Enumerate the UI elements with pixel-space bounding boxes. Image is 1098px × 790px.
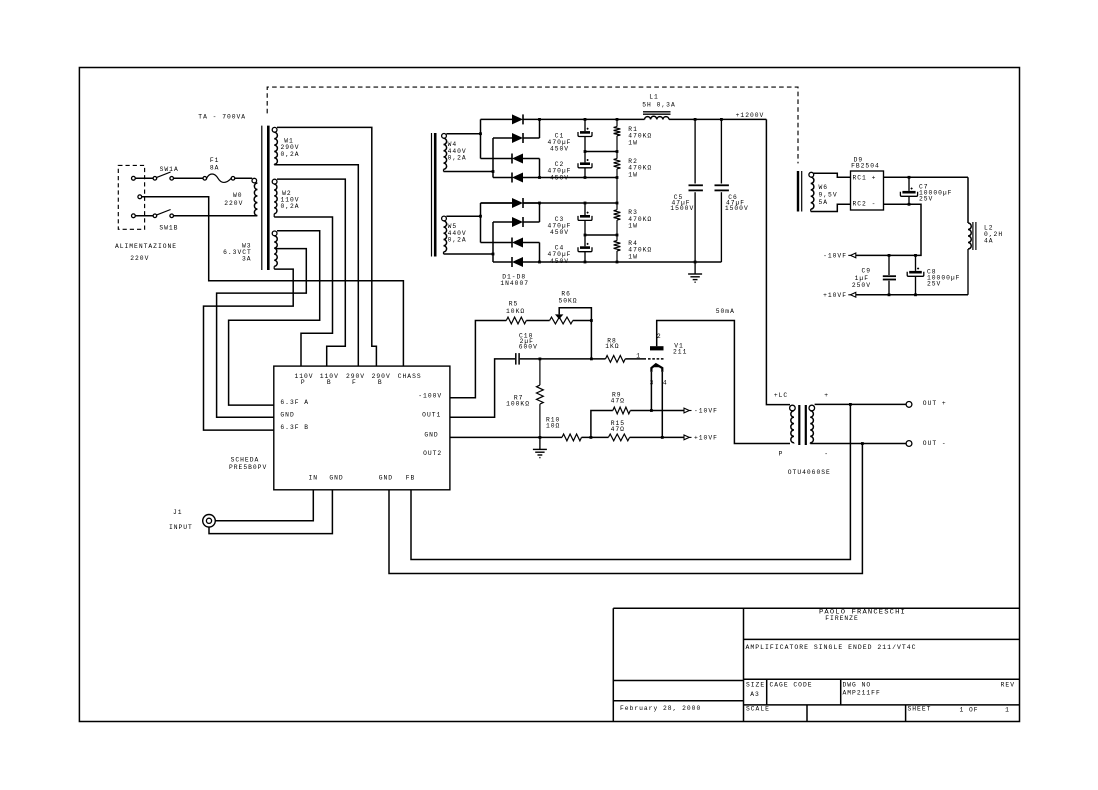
capacitor C10 2uF 600V: [516, 353, 519, 365]
board pin label OUT1: [422, 412, 441, 419]
junction R3 top: [616, 202, 619, 205]
label RC1 +: [853, 174, 877, 181]
board pin label FB: [406, 475, 416, 482]
OPT core: [799, 405, 806, 445]
svg-text:5H 0,3A: 5H 0,3A: [642, 102, 675, 109]
board pin label 6.3F A: [280, 399, 309, 406]
label SW1A: [160, 166, 179, 173]
svg-text:W0: W0: [233, 192, 243, 199]
resistor R2 470K 1W: [614, 152, 621, 178]
board pin label 6.3F B: [280, 424, 309, 431]
label D1-D8 1N4007: [500, 274, 529, 288]
terminal -10VF filament: [823, 253, 856, 260]
svg-text:220V: 220V: [130, 255, 149, 262]
svg-text:OUT2: OUT2: [423, 450, 442, 457]
diode D1: [481, 114, 540, 124]
transformer TA primary W0: [252, 178, 257, 215]
resistor R4 470K 1W: [614, 235, 621, 262]
wire J1 shield to board GND pin: [209, 490, 332, 534]
svg-text:50KΩ: 50KΩ: [558, 298, 577, 305]
label - secondary: [824, 451, 829, 458]
board pin label 110V P: [294, 373, 313, 386]
svg-text:FB2504: FB2504: [851, 162, 880, 169]
junction R7 top: [539, 358, 542, 361]
switch SW1B: [153, 210, 173, 218]
label W0 220V: [224, 192, 243, 207]
svg-text:FIRENZE: FIRENZE: [825, 615, 858, 622]
board pin label CHASS: [398, 373, 422, 380]
svg-text:4: 4: [663, 379, 668, 386]
wire +10VF rail: [856, 294, 969, 296]
wire filament pin 3 leg: [650, 372, 652, 411]
label R7: [506, 395, 530, 408]
svg-text:+: +: [824, 392, 829, 399]
wire GND from board: [450, 436, 562, 438]
diode D4: [493, 173, 523, 183]
svg-text:47Ω: 47Ω: [611, 398, 625, 405]
wire mains N to SW1B: [135, 215, 153, 217]
diode D7: [481, 238, 540, 263]
wire W3 bottom to board pin 6.3F B: [204, 269, 294, 430]
wire group1 bottom node: [523, 177, 617, 179]
svg-text:L1: L1: [649, 94, 659, 101]
label W5 440V 0,2A: [448, 223, 467, 243]
pin label 3: [650, 379, 655, 386]
board pin label 290V F: [346, 373, 365, 386]
svg-text:2: 2: [657, 333, 662, 340]
svg-text:-: -: [824, 451, 829, 458]
svg-text:1500V: 1500V: [670, 205, 694, 212]
junction C4 bottom: [584, 261, 587, 264]
junction pin4 to wire: [661, 436, 664, 439]
wire F1 to W0 primary: [235, 177, 252, 179]
junction bottom1 at diode bus: [538, 176, 541, 179]
label L2: [984, 225, 1003, 245]
label W1 290V 0,2A: [280, 138, 299, 158]
transformer TA secondary W3: [272, 231, 277, 269]
label + secondary: [824, 392, 829, 399]
title text CAGE CODE: [770, 682, 813, 689]
mains terminal node N: [132, 214, 136, 218]
wire RC2 output: [856, 204, 922, 255]
trimmer R6 50K: [550, 308, 592, 324]
title text date: [620, 705, 701, 712]
svg-text:450V: 450V: [550, 146, 569, 153]
tube V1 211 plate: [650, 346, 664, 350]
resistor R7 100K: [537, 359, 544, 437]
junction R4 bottom: [616, 261, 619, 264]
diode D3: [481, 154, 540, 178]
svg-text:8A: 8A: [210, 165, 220, 172]
label C4: [548, 245, 572, 265]
svg-text:1W: 1W: [628, 172, 638, 179]
svg-text:February 28, 2000: February 28, 2000: [620, 705, 701, 712]
title text SCALE: [746, 706, 770, 713]
label R15: [611, 420, 625, 433]
label J1 INPUT: [169, 509, 193, 531]
label P: [779, 451, 784, 458]
terminal OUT-: [906, 440, 947, 447]
svg-text:47Ω: 47Ω: [611, 426, 625, 433]
wire W4 top to diode column: [446, 133, 480, 135]
wire W6 top to bridge: [814, 173, 851, 177]
label R10: [546, 417, 560, 430]
wire +1200V rail: [669, 118, 766, 120]
inductor L1 5H 0,3A: [643, 112, 671, 120]
label F1 8A: [210, 157, 220, 172]
svg-text:25V: 25V: [919, 196, 933, 203]
board pin label -100V: [418, 393, 442, 400]
svg-text:1µF: 1µF: [855, 275, 869, 282]
svg-text:CHASS: CHASS: [398, 373, 422, 380]
svg-text:3: 3: [650, 379, 655, 386]
svg-text:-10VF: -10VF: [694, 408, 718, 415]
title text AMPLIFICATORE SINGLE ENDED 211/VT4C: [746, 644, 917, 651]
wire W1 top to board pin 290V B: [277, 127, 376, 366]
svg-text:A3: A3: [750, 691, 760, 698]
svg-text:3A: 3A: [242, 255, 252, 262]
svg-text:1W: 1W: [628, 223, 638, 230]
tube V1 211 grid: [648, 358, 664, 360]
pin label 4: [663, 379, 668, 386]
junction bottom rail at diode bus: [538, 261, 541, 264]
junction W5 bottom: [492, 253, 495, 256]
diode D5: [481, 198, 540, 208]
transformer core W4/W5: [432, 133, 436, 257]
svg-text:SHEET: SHEET: [908, 706, 932, 713]
terminal -10VF tube: [684, 408, 718, 415]
transformer TA secondary W1: [272, 127, 277, 164]
svg-text:DWG NO: DWG NO: [843, 682, 872, 689]
svg-text:OTU4060SE: OTU4060SE: [788, 469, 831, 476]
capacitor C8 10000uF 25V: [907, 255, 924, 294]
label C8: [927, 269, 960, 288]
resistor R3 470K 1W: [614, 203, 621, 235]
page border frame: [79, 68, 1019, 722]
label C9: [852, 268, 871, 290]
wire W2 top to board pin 110V B: [277, 179, 345, 366]
label R2: [628, 158, 652, 179]
label R4: [628, 240, 652, 261]
label R1: [628, 126, 652, 147]
wire R8 to grid pin 1: [625, 358, 646, 360]
capacitor C3 470uF 450V: [578, 203, 592, 235]
svg-text:9,5V: 9,5V: [819, 192, 838, 199]
wire HV top rail: [540, 118, 645, 120]
svg-text:100KΩ: 100KΩ: [506, 401, 530, 408]
svg-text:ALIMENTAZIONE: ALIMENTAZIONE: [115, 243, 177, 250]
label L1: [642, 94, 675, 109]
junction C6 top: [720, 118, 723, 121]
svg-text:PRE5B0PV: PRE5B0PV: [229, 464, 267, 471]
svg-text:+LC: +LC: [774, 392, 788, 399]
resistor R9 47R: [613, 407, 631, 414]
wire W3 top to board pin 6.3F A: [229, 231, 320, 405]
svg-text:SCALE: SCALE: [746, 706, 770, 713]
label V1 211: [673, 343, 687, 356]
svg-text:F: F: [352, 379, 357, 386]
label D9 FB2504: [851, 157, 880, 170]
board pin label GND bottom fb: [379, 475, 393, 482]
svg-text:OUT1: OUT1: [422, 412, 441, 419]
svg-text:211: 211: [673, 349, 687, 356]
winding W5: [442, 216, 447, 254]
capacitor C5 47uF 1500V: [689, 119, 703, 262]
wire group2 mid node: [585, 234, 617, 236]
input jack J1: [203, 515, 216, 528]
wire diode left column B group1: [492, 138, 494, 178]
svg-text:250V: 250V: [852, 282, 871, 289]
svg-text:450V: 450V: [550, 229, 569, 236]
junction C1 top: [584, 118, 587, 121]
svg-text:25V: 25V: [927, 281, 941, 288]
junction W4 bottom: [492, 170, 495, 173]
title text PAOLO FRANCESCHI: [819, 609, 906, 616]
terminal +10VF filament: [823, 292, 856, 299]
resistor R15 47R: [608, 434, 629, 441]
label R6: [558, 290, 577, 304]
board pin label GND bottom input: [329, 475, 343, 482]
title block outline: [613, 608, 1019, 721]
junction R1 bottom: [616, 150, 619, 153]
svg-text:-10VF: -10VF: [823, 253, 847, 260]
junction top rail at diode bus: [538, 118, 541, 121]
svg-text:INPUT: INPUT: [169, 524, 193, 531]
svg-text:450V: 450V: [550, 174, 569, 181]
svg-text:OUT -: OUT -: [923, 440, 947, 447]
terminal +10VF tube: [684, 435, 718, 442]
svg-text:0,2A: 0,2A: [280, 203, 299, 210]
diode D2: [493, 119, 540, 143]
svg-text:1500V: 1500V: [725, 205, 749, 212]
svg-text:W6: W6: [819, 184, 829, 191]
junction pin3 to R9: [650, 409, 653, 412]
dashed HV supply boundary box: [267, 87, 798, 163]
title text REV: [1001, 682, 1015, 689]
transformer TA secondary W2: [272, 179, 277, 217]
wire W5 bottom to diode column: [444, 253, 494, 255]
wire secondary ground to board GND pin: [389, 444, 862, 574]
svg-text:+1200V: +1200V: [736, 112, 765, 119]
wire R10 to R15: [582, 436, 609, 438]
wire R2-R3 link: [616, 178, 618, 204]
junction ground tap: [861, 442, 864, 445]
board pin label 110V B: [320, 373, 339, 386]
junction C1 bottom: [584, 150, 587, 153]
ground symbol HV: [688, 262, 702, 282]
title text DWG NO: [843, 682, 881, 697]
label OTU4060SE: [788, 469, 831, 476]
board pin label OUT2: [423, 450, 442, 457]
bridge rectifier D9 FB2504: [851, 171, 884, 210]
svg-text:TA - 700VA: TA - 700VA: [198, 114, 246, 121]
svg-text:10KΩ: 10KΩ: [506, 308, 525, 315]
svg-text:6.3F A: 6.3F A: [280, 399, 309, 406]
svg-text:R6: R6: [561, 290, 571, 297]
wire group2 top rail: [481, 202, 618, 204]
wire SW1B to W0 primary: [174, 215, 258, 217]
wire W4 bottom to diode column: [444, 171, 494, 173]
capacitor C2 470uF 450V: [578, 152, 592, 178]
wire W3 center tap to board GND pin: [217, 249, 307, 418]
svg-text:6.3F B: 6.3F B: [280, 424, 309, 431]
board pin label GND left: [280, 412, 294, 419]
inductor L2 0,2H 4A: [968, 177, 976, 294]
resistor R8 1K grid stopper: [606, 356, 626, 363]
svg-text:GND: GND: [379, 475, 393, 482]
wire R6 node down to grid node: [590, 321, 592, 359]
title text SHEET: [908, 706, 1010, 714]
junction chassis ground: [539, 436, 542, 439]
label 50mA: [716, 308, 735, 315]
wire OPT secondary bottom to OUT-: [810, 443, 906, 445]
mains terminal node L: [132, 176, 136, 180]
title text FIRENZE: [825, 615, 858, 622]
label SW1B: [159, 225, 178, 232]
svg-text:1KΩ: 1KΩ: [605, 343, 619, 350]
svg-text:0,2A: 0,2A: [280, 151, 299, 158]
svg-text:450V: 450V: [550, 258, 569, 265]
svg-text:GND: GND: [424, 432, 438, 439]
dashed mains connector box ALIMENTAZIONE: [118, 165, 144, 229]
svg-text:4A: 4A: [984, 237, 994, 244]
label R9: [611, 392, 625, 405]
svg-text:SIZE: SIZE: [746, 682, 765, 689]
wire W5 top to diode column: [446, 215, 480, 217]
junction R2 bottom: [616, 176, 619, 179]
svg-text:1: 1: [1005, 707, 1010, 714]
svg-text:R5: R5: [509, 300, 519, 307]
OPT primary winding: [790, 405, 796, 443]
wire plate to OPT primary: [657, 321, 790, 444]
svg-text:220V: 220V: [224, 200, 243, 207]
junction W5 top: [479, 215, 482, 218]
wire C10 to grid node: [520, 358, 606, 360]
junction W4 top: [479, 132, 482, 135]
wire filament pin 4 leg: [661, 372, 663, 438]
svg-text:GND: GND: [329, 475, 343, 482]
svg-text:IN: IN: [309, 475, 319, 482]
label R3: [628, 209, 652, 230]
junction C5 top: [694, 118, 697, 121]
pin label 2: [657, 333, 662, 340]
junction C7 bottom: [908, 203, 911, 206]
wire RC1 output rail: [884, 176, 969, 178]
svg-text:5A: 5A: [819, 199, 829, 206]
capacitor C6 47uF 1500V: [715, 119, 729, 262]
terminal OUT+: [906, 400, 947, 407]
label C1: [548, 132, 572, 152]
driver board SCHEDA PRE5B0PV outline: [274, 366, 450, 490]
wire W2 bottom to board pin 110V P: [274, 217, 332, 366]
wire -100V from board: [450, 321, 506, 398]
junction feedback tap: [849, 403, 852, 406]
wire W1 bottom to board pin 290V F: [274, 165, 358, 366]
label C2: [548, 161, 572, 181]
winding W4: [442, 134, 447, 172]
label C6: [725, 194, 749, 212]
capacitor C4 470uF 450V: [578, 235, 592, 262]
svg-text:J1: J1: [173, 509, 183, 516]
wire J1 signal to board IN pin: [215, 490, 313, 521]
svg-text:F1: F1: [210, 157, 220, 164]
svg-text:B: B: [327, 379, 332, 386]
switch SW1A: [153, 172, 173, 180]
svg-text:RC2 -: RC2 -: [853, 201, 877, 208]
label W2 110V 0,2A: [280, 190, 299, 210]
junction C3 bottom: [584, 234, 587, 237]
svg-text:OUT +: OUT +: [923, 400, 947, 407]
svg-text:1W: 1W: [628, 140, 638, 147]
svg-text:0,2A: 0,2A: [448, 236, 467, 243]
junction R3 bottom: [616, 234, 619, 237]
junction C3 top: [584, 202, 587, 205]
svg-text:GND: GND: [280, 412, 294, 419]
junction C9 top: [888, 254, 891, 257]
junction C9 bottom: [888, 293, 891, 296]
wire OUT1 from board to C10: [450, 359, 515, 417]
mains terminal node E: [138, 195, 142, 199]
junction filament return node: [590, 436, 593, 439]
resistor R5 10K: [506, 317, 526, 324]
label W3 6.3VCT 3A: [223, 242, 252, 262]
board pin label IN: [309, 475, 319, 482]
capacitor C7 10000uF 25V: [900, 177, 917, 204]
fuse F1: [203, 174, 235, 182]
board pin label GND right: [424, 432, 438, 439]
wire mains earth to board CHASS pin: [142, 197, 404, 366]
pin label 1: [636, 353, 641, 360]
label +LC: [774, 392, 788, 399]
wire node up to R9: [591, 411, 613, 438]
wire mains L to SW1A: [135, 177, 153, 179]
svg-text:+10VF: +10VF: [694, 435, 718, 442]
capacitor C1 470uF 450V: [578, 119, 592, 151]
label W6: [819, 184, 838, 206]
label R8: [605, 337, 619, 350]
svg-text:600V: 600V: [519, 344, 538, 351]
winding W6 9,5V 5A: [809, 172, 814, 211]
diode D6: [493, 203, 540, 227]
junction C8 top: [914, 254, 917, 257]
junction C2 bottom: [584, 176, 587, 179]
svg-text:-100V: -100V: [418, 393, 442, 400]
wire diode left column B group2: [492, 222, 494, 262]
svg-text:AMP211FF: AMP211FF: [843, 690, 881, 697]
label ALIMENTAZIONE 220V: [115, 243, 177, 262]
label W4 440V 0,2A: [448, 141, 467, 161]
label C10: [519, 332, 538, 350]
wire R15 to +10VF: [630, 436, 684, 438]
OPT secondary winding: [809, 405, 815, 443]
label R5: [506, 300, 525, 315]
resistor R1 470K 1W: [614, 119, 621, 151]
label SCHEDA PRE5B0PV: [229, 457, 267, 471]
label TA - 700VA: [198, 114, 246, 121]
svg-text:1: 1: [636, 353, 641, 360]
svg-text:SW1A: SW1A: [160, 166, 179, 173]
wire HV bottom rail: [523, 261, 721, 263]
diode D8: [493, 257, 523, 267]
svg-text:SW1B: SW1B: [159, 225, 178, 232]
wire +1200V drop to OPT: [766, 119, 790, 404]
svg-text:FB: FB: [406, 475, 416, 482]
resistor R10 10R: [562, 434, 582, 441]
svg-text:P: P: [301, 379, 306, 386]
wire R5 to R6: [526, 320, 549, 322]
wire W6 bottom to bridge: [811, 204, 851, 211]
svg-text:+10VF: +10VF: [823, 292, 847, 299]
